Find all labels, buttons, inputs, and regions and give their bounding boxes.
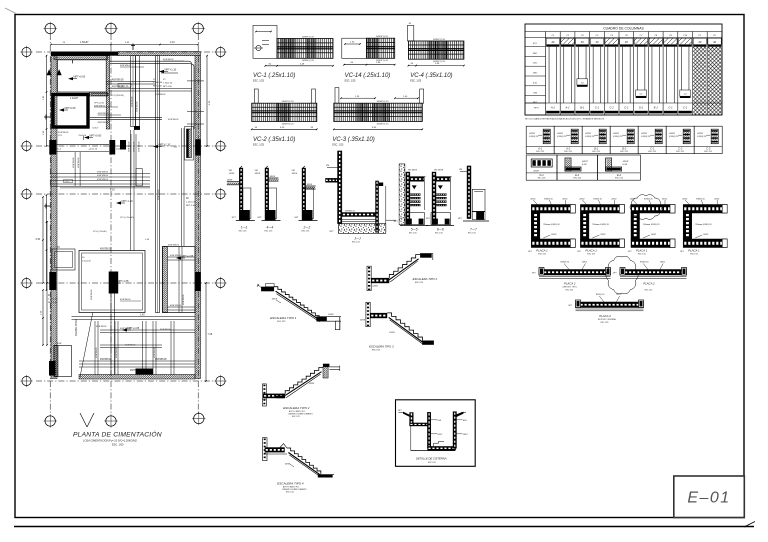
grid bubble bottom 2 [106, 416, 116, 426]
grid bubble right C [216, 189, 225, 198]
boxed text 1.50x1.10 [118, 84, 131, 88]
svg-text:4Ø5/8": 4Ø5/8" [585, 133, 591, 135]
svg-text:45/8"Ø8.05: 45/8"Ø8.05 [96, 347, 98, 358]
svg-text:ESCALERA TIPO 3: ESCALERA TIPO 3 [369, 345, 394, 349]
svg-text:ESC 1/25: ESC 1/25 [565, 290, 573, 292]
svg-text:ESC. 1/25: ESC. 1/25 [345, 80, 357, 83]
svg-text:PLACA 2: PLACA 2 [643, 282, 655, 286]
svg-text:1Ø3/8"@.20: 1Ø3/8"@.20 [302, 36, 315, 38]
svg-text:ESC. 1/25: ESC. 1/25 [253, 144, 265, 147]
svg-text:E3/8: E3/8 [463, 420, 467, 422]
svg-text:4Ø5/8": 4Ø5/8" [641, 133, 647, 135]
svg-text:ESC 1/25: ESC 1/25 [620, 151, 628, 153]
svg-text:45/8"Ø8.05: 45/8"Ø8.05 [91, 289, 93, 300]
svg-text:E3/8@.20: E3/8@.20 [640, 262, 648, 264]
svg-text:NPT-1.60: NPT-1.60 [153, 85, 163, 87]
grid bubble right B [216, 141, 225, 150]
svg-text:ESC 1/25: ESC 1/25 [409, 232, 417, 234]
footing Z2 right room [187, 129, 192, 158]
wall section detail 2-2 [292, 166, 318, 233]
svg-text:45/8"Ø8.05: 45/8"Ø8.05 [100, 249, 112, 251]
svg-text:E.3/8@.20: E.3/8@.20 [697, 136, 706, 138]
svg-text:1.50x67: 1.50x67 [80, 41, 89, 44]
bottom-left room outline [54, 346, 72, 377]
svg-text:VC7(.25X.80): VC7(.25X.80) [111, 95, 125, 97]
svg-text:D-1: D-1 [540, 173, 545, 177]
svg-text:45/8"Ø8.05: 45/8"Ø8.05 [96, 326, 107, 328]
svg-text:PLACA 1: PLACA 1 [536, 249, 548, 253]
wall anchor triangles left [47, 69, 52, 75]
grid bubble right E [216, 376, 225, 385]
svg-text:E-1: E-1 [654, 106, 659, 110]
left exterior dimension chain 2 [46, 56, 48, 146]
grid line horizontal E [36, 380, 217, 382]
svg-text:45/8"Ø8.05: 45/8"Ø8.05 [97, 172, 109, 174]
svg-text:ESCALERA TIPO 1: ESCALERA TIPO 1 [270, 316, 297, 320]
svg-text:EN POZO CISTERNA: EN POZO CISTERNA [598, 318, 616, 321]
plan vertical beam corridor lower [130, 130, 132, 251]
svg-text:VM: VM [459, 169, 462, 171]
svg-text:2Ø1/2: 2Ø1/2 [551, 234, 556, 236]
plan beams cluster 8 lower [79, 360, 195, 362]
svg-text:ESC 1/25: ESC 1/25 [277, 321, 285, 323]
wall bottom hatched [79, 375, 195, 380]
svg-text:ESC 1/25: ESC 1/25 [676, 151, 684, 153]
svg-text:J—J: J—J [354, 237, 361, 241]
svg-text:45/8"Ø8.05: 45/8"Ø8.05 [170, 255, 182, 257]
right tall room left wall hatch [163, 247, 168, 313]
central wall on grid 2 [106, 56, 110, 129]
svg-text:NPT-1.05: NPT-1.05 [118, 279, 130, 283]
svg-text:4Ø5/8": 4Ø5/8" [529, 133, 535, 135]
vertical beam pair left of Z2 [181, 128, 183, 246]
room 2 level marker [59, 108, 64, 111]
svg-text:4Ø5/8": 4Ø5/8" [623, 161, 629, 163]
grid bubble bottom 3 [194, 413, 204, 423]
column section box C-2 [666, 126, 694, 153]
svg-text:4Ø5/8": 4Ø5/8" [669, 133, 675, 135]
grid bubble right A [216, 47, 225, 56]
svg-text:3.45: 3.45 [35, 238, 40, 241]
wall section detail 4-4 [255, 166, 281, 233]
svg-text:4Ø5/8": 4Ø5/8" [613, 133, 619, 135]
svg-text:4Ø5/8": 4Ø5/8" [557, 133, 563, 135]
svg-text:2DO: 2DO [533, 63, 538, 65]
stair detail ESCALERA TIPO 1 [257, 284, 341, 330]
svg-text:E3/8@.20: E3/8@.20 [703, 224, 711, 226]
svg-text:SE COLOCARA 2 ESTRIBOS ADICION: SE COLOCARA 2 ESTRIBOS ADICIONALES A 0.0… [525, 118, 605, 121]
plan beams bottom pair [50, 183, 150, 185]
svg-text:2Ø1/2: 2Ø1/2 [714, 199, 719, 201]
grid bubble bottom 1 [45, 416, 55, 426]
stair detail ESCALERA TIPO 4 bottom [263, 438, 335, 494]
svg-text:1Ø3/8: 1Ø3/8 [309, 383, 315, 385]
wall section detail 5-5 [399, 164, 428, 235]
svg-text:ESC 1/25: ESC 1/25 [538, 254, 546, 256]
room 1 top tick [72, 60, 74, 64]
svg-text:ESC 1/25: ESC 1/25 [645, 290, 653, 292]
svg-text:1Ø3/8"@.20: 1Ø3/8"@.20 [376, 101, 389, 103]
title block box E-01 [674, 476, 745, 518]
svg-text:ESC 1/25: ESC 1/25 [690, 254, 698, 256]
svg-text:2Ø1/2: 2Ø1/2 [437, 434, 442, 436]
svg-text:E–01: E–01 [687, 490, 730, 507]
svg-text:45/8"Ø8.05: 45/8"Ø8.05 [120, 299, 131, 301]
room 1 outline [58, 60, 107, 92]
svg-text:NPT+1.05: NPT+1.05 [128, 326, 140, 330]
svg-text:1Ø3/8"@.20: 1Ø3/8"@.20 [376, 36, 389, 38]
grid line vertical 1 [49, 34, 51, 415]
svg-text:45/8"Ø8.05: 45/8"Ø8.05 [132, 96, 134, 107]
svg-text:1Ø3/8: 1Ø3/8 [389, 332, 395, 334]
svg-text:E.3/8@.20: E.3/8@.20 [557, 136, 566, 138]
cistern detail box [396, 400, 476, 467]
svg-text:VM 1Ø3/8: VM 1Ø3/8 [408, 170, 418, 172]
grid bubble top 1 [45, 23, 55, 33]
svg-text:VM: VM [255, 170, 258, 172]
svg-text:NPT+0.60: NPT+0.60 [90, 133, 102, 137]
wall section detail 7-7 [458, 166, 489, 235]
svg-text:E.3/8@.20: E.3/8@.20 [585, 136, 594, 138]
svg-text:(C2): (C2) [116, 149, 121, 151]
svg-text:ESC. 1/25: ESC. 1/25 [253, 80, 265, 83]
svg-text:45/8"Ø8.05: 45/8"Ø8.05 [155, 359, 167, 361]
svg-text:E3/8@.20: E3/8@.20 [644, 199, 652, 201]
svg-text:45/8"Ø8.05: 45/8"Ø8.05 [139, 141, 141, 152]
svg-text:E3/8@.20: E3/8@.20 [696, 199, 704, 201]
svg-text:E.3/8@.20: E.3/8@.20 [613, 136, 622, 138]
corner fold mark [5, 8, 17, 14]
svg-text:VC-3 (.35x1.10): VC-3 (.35x1.10) [332, 137, 374, 143]
room 2 thick black outline [53, 95, 88, 128]
svg-text:E-1: E-1 [575, 173, 580, 177]
section cut mark top [131, 45, 135, 47]
level marker NPT+0.60 mid [84, 136, 89, 139]
svg-text:PLACA 3: PLACA 3 [599, 314, 611, 318]
svg-text:ESC 1/25: ESC 1/25 [286, 492, 294, 494]
svg-text:VC-14 (.25x1.10): VC-14 (.25x1.10) [345, 73, 391, 79]
svg-text:1.40x1.00: 1.40x1.00 [163, 83, 173, 85]
svg-text:C-1: C-1 [595, 106, 600, 110]
plan beams cluster 3 [90, 116, 162, 118]
svg-text:NPT+1.10: NPT+1.10 [165, 67, 177, 71]
svg-text:45/8"Ø8.05: 45/8"Ø8.05 [58, 132, 69, 134]
svg-text:4—4: 4—4 [267, 226, 274, 230]
grid bubble top 3 [193, 23, 203, 33]
svg-text:1Ø3/8: 1Ø3/8 [292, 173, 298, 175]
svg-text:PLACA 1: PLACA 1 [636, 249, 648, 253]
svg-text:1Ø3/8: 1Ø3/8 [328, 314, 334, 316]
svg-text:2Ø1/2: 2Ø1/2 [582, 262, 587, 264]
column block bottom-left [49, 361, 56, 376]
plan beams cluster 1 [107, 81, 156, 83]
svg-text:2Ø1/2: 2Ø1/2 [651, 234, 656, 236]
svg-text:45/8"Ø8.05: 45/8"Ø8.05 [97, 175, 109, 177]
svg-text:ESC 1/25: ESC 1/25 [536, 151, 544, 153]
svg-text:E.3/8@.20: E.3/8@.20 [529, 136, 538, 138]
svg-text:VC-2 (.35x1.10): VC-2 (.35x1.10) [253, 137, 295, 143]
svg-text:VC-5 (.25x.80): VC-5 (.25x.80) [120, 217, 134, 219]
grid line horizontal C [36, 193, 217, 195]
svg-text:ESC 1/25: ESC 1/25 [239, 231, 247, 233]
shear wall detail PLACA 1 #3 [628, 199, 675, 256]
svg-text:ESC. 1/25: ESC. 1/25 [410, 80, 422, 83]
svg-text:ESC 1/25: ESC 1/25 [704, 151, 712, 153]
svg-text:C-3: C-3 [706, 146, 711, 150]
column section box E-2 L-shape [598, 155, 641, 180]
top dimension chain [51, 44, 198, 46]
svg-text:1—1: 1—1 [241, 226, 248, 230]
svg-text:ESC 1/25: ESC 1/25 [573, 178, 581, 180]
svg-text:-.22x1.10: -.22x1.10 [88, 149, 98, 151]
svg-text:E.3/8: E.3/8 [623, 164, 627, 166]
footing Z3 left [52, 249, 75, 270]
svg-text:2.10: 2.10 [170, 41, 175, 44]
wall left hatched [51, 56, 57, 379]
svg-text:4Ø5/8": 4Ø5/8" [582, 161, 588, 163]
svg-text:2Ø1/2: 2Ø1/2 [579, 199, 584, 201]
svg-text:2Ø1/2: 2Ø1/2 [660, 262, 665, 264]
grid bubble left E [22, 376, 31, 385]
svg-text:45/8"Ø8.05: 45/8"Ø8.05 [155, 94, 166, 96]
retaining wall section J-J [325, 151, 398, 244]
svg-text:S-01: S-01 [533, 82, 538, 84]
plan vertical beam c [94, 321, 96, 375]
column block left wall at B [49, 140, 56, 155]
svg-text:B-2: B-2 [622, 146, 627, 150]
beam detail VC-4 [407, 23, 464, 83]
grid line horizontal D [36, 282, 217, 284]
grid bubble top 2 [106, 23, 116, 33]
svg-text:VM: VM [292, 170, 295, 172]
svg-text:4.10: 4.10 [110, 189, 115, 192]
plan small dim ticks left [46, 195, 48, 290]
bottom rule end tick [744, 522, 755, 528]
svg-text:RAMPA 15%%: RAMPA 15%% [74, 318, 78, 336]
svg-text:A-2: A-2 [565, 146, 571, 150]
svg-text:B-1: B-1 [594, 146, 599, 150]
svg-text:E3/8@.20: E3/8@.20 [600, 224, 608, 226]
svg-text:1Ø3/8: 1Ø3/8 [360, 319, 366, 321]
svg-text:C-1: C-1 [683, 106, 688, 110]
svg-text:ESC 1/25: ESC 1/25 [601, 322, 609, 324]
svg-text:45/8"Ø8.05: 45/8"Ø8.05 [97, 179, 109, 181]
svg-text:E3/8: E3/8 [437, 420, 441, 422]
svg-text:1Ø3/8"@.20: 1Ø3/8"@.20 [302, 60, 315, 62]
grid bubble left B [22, 141, 31, 150]
svg-text:ESC 1/25: ESC 1/25 [648, 151, 656, 153]
level marker mid right [153, 145, 158, 148]
extra level markers lower [122, 328, 127, 331]
svg-text:4TO: 4TO [533, 43, 538, 45]
svg-text:45/8": 45/8" [57, 343, 62, 345]
svg-text:1Ø3/8"@.20: 1Ø3/8"@.20 [433, 39, 446, 41]
svg-text:ESCALERA TIPO 2: ESCALERA TIPO 2 [413, 277, 438, 281]
svg-text:ESC 1/25: ESC 1/25 [435, 232, 443, 234]
svg-text:2Ø1/2: 2Ø1/2 [600, 234, 605, 236]
beam detail VC-14 [342, 36, 396, 83]
svg-text:ESC 1/25: ESC 1/25 [587, 254, 595, 256]
room 1 top wall hatch [54, 56, 107, 60]
svg-text:PLACA 2: PLACA 2 [564, 282, 576, 286]
revision cloud on placa 2 right [606, 256, 638, 294]
right tall room outline [163, 247, 196, 313]
stair detail ESCALERA TIPO 3 right [360, 302, 434, 351]
long wall grid to right room [156, 56, 160, 313]
svg-text:45/8"Ø8.05: 45/8"Ø8.05 [73, 157, 75, 168]
svg-text:PLACA 1: PLACA 1 [585, 249, 597, 253]
column section box B-2 [610, 126, 638, 153]
svg-text:45/8"Ø8.05: 45/8"Ø8.05 [183, 294, 185, 305]
svg-text:7—7: 7—7 [470, 227, 477, 231]
level marker lower center [116, 201, 121, 204]
wall section detail 6-6 [426, 170, 454, 235]
plan vertical beam a [74, 152, 76, 186]
svg-text:45/8"Ø8.05: 45/8"Ø8.05 [116, 347, 118, 358]
beam detail VC-2 [251, 89, 318, 147]
plan vertical beam f right [178, 247, 180, 313]
svg-text:VPT=2.05: VPT=2.05 [94, 102, 105, 104]
level marker bottom area [112, 281, 117, 284]
shear wall detail PLACA 2 right [613, 262, 687, 292]
grid bubble right D [216, 278, 225, 287]
svg-text:E3/8@.20: E3/8@.20 [560, 262, 568, 264]
svg-text:2Ø5/8": 2Ø5/8" [533, 171, 539, 173]
plan beams cluster 9 mid-low [100, 329, 195, 331]
svg-text:2—2: 2—2 [303, 226, 311, 230]
column at grid 2-D [109, 272, 119, 294]
svg-text:A-1: A-1 [537, 146, 543, 150]
wall tie ticks right [187, 80, 204, 82]
plan beams right room top [168, 256, 196, 258]
bottom rule line [14, 526, 754, 528]
column section box B-1 [582, 126, 610, 153]
wall top black segment [51, 52, 118, 56]
column section box E-1 L-shape [557, 155, 598, 180]
svg-text:NPT-0.05: NPT-0.05 [65, 106, 77, 110]
column section box C-1 [638, 126, 666, 153]
svg-text:2Ø1/2: 2Ø1/2 [662, 199, 667, 201]
svg-text:B-1: B-1 [580, 106, 585, 110]
svg-text:1Ø3/8@.20: 1Ø3/8@.20 [345, 210, 356, 212]
beam detail VC-3 [332, 88, 423, 147]
plan vertical beam g [170, 321, 172, 375]
svg-text:NPT-1.10: NPT-1.10 [122, 199, 134, 203]
shear wall detail PLACA 1 #1 [528, 199, 575, 256]
svg-text:ESC 1/25: ESC 1/25 [538, 178, 546, 180]
svg-text:2Ø1/2: 2Ø1/2 [463, 434, 468, 436]
svg-text:ESCALERA TIPO 4: ESCALERA TIPO 4 [277, 482, 304, 486]
svg-text:ESC 1/25: ESC 1/25 [352, 242, 360, 244]
grid line vertical 3 [197, 34, 199, 413]
svg-text:C-1: C-1 [610, 106, 615, 110]
section cut V mark [80, 413, 87, 427]
svg-text:VM: VM [229, 170, 232, 172]
svg-text:ESC. 1/50: ESC. 1/50 [112, 444, 124, 447]
svg-text:E.3/8@.20: E.3/8@.20 [641, 136, 650, 138]
svg-text:VC-4 (.35x1.10): VC-4 (.35x1.10) [410, 73, 452, 79]
plan beam hatch strip VC-7 [92, 94, 109, 96]
beam detail VC-1 [253, 26, 334, 83]
svg-text:E-2: E-2 [617, 173, 622, 177]
svg-text:1.20x1.00: 1.20x1.00 [82, 261, 92, 263]
svg-text:VC-2: VC-2 [56, 149, 62, 151]
svg-text:.25x1.10: .25x1.10 [78, 135, 87, 137]
column section box A-1 [526, 126, 554, 153]
svg-text:45/8"Ø8.05: 45/8"Ø8.05 [154, 347, 156, 358]
grid bubble left C [22, 189, 31, 198]
svg-text:ESC 1/25: ESC 1/25 [292, 416, 300, 418]
wall right hatched [195, 56, 201, 379]
section cut mark left 1 [44, 116, 50, 118]
svg-text:C-2: C-2 [678, 146, 683, 150]
shear wall detail PLACA 3 [569, 294, 644, 324]
svg-text:ESC 1/25: ESC 1/25 [265, 231, 273, 233]
svg-text:1Ø3/8"@.20: 1Ø3/8"@.20 [376, 123, 389, 125]
corridor wall b [136, 56, 140, 127]
svg-text:ESC. 1/25: ESC. 1/25 [332, 144, 344, 147]
svg-text:E.3/8: E.3/8 [582, 164, 586, 166]
svg-text:CIM: CIM [533, 92, 537, 94]
svg-text:45/8"Ø8.05: 45/8"Ø8.05 [168, 119, 179, 121]
corridor wall a [131, 56, 136, 127]
svg-text:C-1: C-1 [624, 106, 629, 110]
svg-text:45/8"Ø8.05: 45/8"Ø8.05 [100, 359, 112, 361]
column block right wall upper [195, 139, 201, 155]
column at grid 2-B [109, 140, 115, 155]
svg-text:45/8"Ø8.05: 45/8"Ø8.05 [78, 157, 80, 168]
svg-text:ESCALERA TIPO 2: ESCALERA TIPO 2 [283, 406, 310, 410]
plan vertical beam e [152, 321, 154, 375]
column mid plan [120, 140, 126, 150]
svg-text:2Ø1/2: 2Ø1/2 [530, 199, 535, 201]
svg-text:45/8"Ø8.05: 45/8"Ø8.05 [120, 65, 132, 67]
svg-text:2Ø1/2: 2Ø1/2 [682, 199, 687, 201]
svg-text:E3/8@.20: E3/8@.20 [593, 199, 601, 201]
foundation plan group [20, 22, 226, 447]
svg-text:1Ø3/8: 1Ø3/8 [255, 173, 261, 175]
svg-text:NPT+0.00: NPT+0.00 [74, 75, 86, 79]
svg-text:45/8"Ø8.05: 45/8"Ø8.05 [112, 80, 124, 82]
svg-text:1Ø3/8: 1Ø3/8 [229, 173, 235, 175]
svg-text:LOSA CIMENTACION Fc=.10 S/C=1: LOSA CIMENTACION Fc=.10 S/C=1.20KG/M2 [83, 439, 137, 443]
plan vertical beam h [142, 321, 144, 375]
small rect outline right of cluster [136, 169, 142, 186]
svg-text:ESC 1/25: ESC 1/25 [615, 178, 623, 180]
svg-text:2Ø1/2: 2Ø1/2 [611, 199, 616, 201]
svg-text:PLANTA DE CIMENTACIÓN: PLANTA DE CIMENTACIÓN [73, 430, 162, 439]
svg-text:ESC 1/25: ESC 1/25 [428, 462, 436, 464]
svg-text:2Ø1/2: 2Ø1/2 [562, 199, 567, 201]
svg-text:3RO: 3RO [533, 53, 538, 55]
plan beams cluster 4 rows [50, 172, 150, 174]
svg-text:E.3/8@.20: E.3/8@.20 [669, 136, 678, 138]
svg-text:VM: VM [326, 165, 329, 167]
svg-text:NPT-1.60: NPT-1.60 [163, 86, 173, 88]
plan vertical beam b [130, 134, 132, 186]
ramp diagonal line [80, 313, 93, 378]
svg-text:45/8"Ø8.05: 45/8"Ø8.05 [125, 345, 136, 347]
svg-text:1.40: 1.40 [140, 315, 145, 317]
svg-text:7.45: 7.45 [208, 333, 213, 336]
grid bubble left A [22, 47, 31, 56]
left dimension chain [42, 197, 44, 283]
grid bubble left D [22, 278, 31, 287]
svg-text:45/8"Ø8.05: 45/8"Ø8.05 [168, 245, 180, 247]
shear wall detail PLACA 1 #4 [680, 199, 727, 256]
svg-text:1.20x1.00: 1.20x1.00 [186, 202, 196, 204]
stair detail ESCALERA TIPO 2 upper [367, 254, 437, 291]
